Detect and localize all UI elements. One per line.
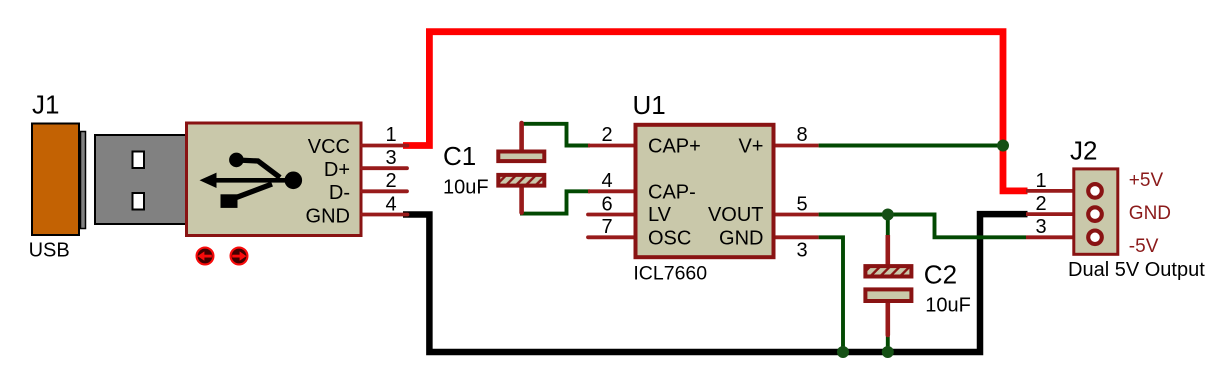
wire C2 top to VOUT node (green) <box>886 215 890 238</box>
svg-text:J1: J1 <box>32 90 59 120</box>
junction: VOUT / C2 <box>882 209 894 221</box>
svg-text:1: 1 <box>1035 170 1046 192</box>
svg-text:7: 7 <box>601 216 612 238</box>
svg-text:GND: GND <box>306 205 350 227</box>
svg-text:3: 3 <box>796 239 807 261</box>
svg-text:10uF: 10uF <box>925 295 971 317</box>
svg-text:U1: U1 <box>633 90 666 120</box>
svg-text:ICL7660: ICL7660 <box>633 263 707 285</box>
J1 pin 1 stub <box>362 144 408 148</box>
svg-text:3: 3 <box>385 147 396 169</box>
capacitor C1 bottom pin <box>519 186 524 213</box>
J2 pin 3 circle <box>1088 231 1102 245</box>
svg-text:C1: C1 <box>443 141 476 171</box>
J2 pin 3 stub <box>1026 235 1074 239</box>
U1 pin 3 stub <box>773 235 819 239</box>
ground net wire (black thick) J1 pin4 to J2 pin2 <box>403 214 1028 352</box>
svg-text:2: 2 <box>1035 193 1046 215</box>
svg-text:8: 8 <box>796 124 807 146</box>
connector J1 metal shell <box>95 135 188 224</box>
U1 pin 5 stub <box>773 213 819 217</box>
capacitor C1 top pin <box>519 123 524 152</box>
svg-text:LV: LV <box>648 204 672 226</box>
J2 pin 2 circle <box>1088 207 1102 221</box>
capacitor C2 top pin <box>885 235 890 267</box>
connector J1 shell window 2 <box>133 193 145 210</box>
connector J2 body <box>1074 169 1118 254</box>
capacitor C1 bottom plate (hatched negative) <box>498 175 544 186</box>
J1 pin 2 stub <box>362 189 407 193</box>
svg-text:10uF: 10uF <box>443 177 489 199</box>
J2 pin 1 stub <box>1026 189 1074 193</box>
capacitor C2 bottom pin <box>885 302 890 335</box>
svg-text:CAP+: CAP+ <box>648 136 701 158</box>
J2 pin 2 stub <box>1026 212 1074 216</box>
U1 pin 7 stub <box>588 235 635 239</box>
svg-text:+5V: +5V <box>1129 170 1164 191</box>
connector J1 shell window 1 <box>133 152 145 169</box>
svg-text:2: 2 <box>385 170 396 192</box>
connector J1 USB plug orange overmold <box>32 124 79 236</box>
capacitor C2 bottom plate <box>865 289 911 301</box>
svg-text:VCC: VCC <box>308 136 350 158</box>
svg-text:2: 2 <box>601 124 612 146</box>
svg-text:4: 4 <box>601 170 612 192</box>
svg-text:GND: GND <box>719 227 763 249</box>
J2 pin 1 circle <box>1088 184 1102 198</box>
wire C1 bottom to U1 CAP- (green) <box>520 191 590 213</box>
svg-text:CAP-: CAP- <box>648 182 696 204</box>
J1 orientation arrow symbol right <box>231 248 248 265</box>
svg-text:-5V: -5V <box>1129 236 1159 257</box>
wire U1 V+ pin8 to +5V net (green) <box>819 144 1003 148</box>
connector J1 plug lip <box>81 132 86 229</box>
junction: C2 bottom to ground rail <box>882 346 894 358</box>
J1 pin 3 stub <box>362 166 407 170</box>
svg-text:V+: V+ <box>738 136 763 158</box>
svg-text:3: 3 <box>1035 216 1046 238</box>
J1 USB trident logo <box>200 153 303 208</box>
connector J1 body <box>187 123 362 236</box>
capacitor C1 top plate <box>498 152 544 162</box>
U1 pin 6 stub <box>588 213 635 217</box>
wire U1 VOUT pin5 to J2 pin3 (green) <box>819 215 1026 238</box>
J1 pin 4 stub <box>362 213 408 217</box>
svg-text:C2: C2 <box>924 260 957 290</box>
wire C2 bottom to ground rail (green) <box>886 334 890 352</box>
svg-text:5: 5 <box>796 193 807 215</box>
svg-text:USB: USB <box>29 240 70 262</box>
svg-text:OSC: OSC <box>648 227 691 249</box>
wire C1 top to U1 CAP+ (green) <box>520 124 590 146</box>
svg-text:1: 1 <box>385 124 396 146</box>
IC U1 body <box>636 125 774 257</box>
U1 pin 2 stub <box>588 144 635 148</box>
svg-text:4: 4 <box>385 193 396 215</box>
svg-text:GND: GND <box>1129 203 1171 224</box>
U1 pin 4 stub <box>588 189 635 193</box>
svg-text:D-: D- <box>329 182 350 204</box>
svg-text:6: 6 <box>601 193 612 215</box>
svg-text:VOUT: VOUT <box>708 204 764 226</box>
wire U1 GND pin3 to ground rail (green) <box>819 237 843 352</box>
junction: U1 GND to ground rail <box>837 346 849 358</box>
capacitor C2 top plate (hatched negative) <box>865 266 911 276</box>
J1 orientation arrow symbol left <box>197 248 214 265</box>
svg-text:Dual 5V Output: Dual 5V Output <box>1068 259 1205 281</box>
+5V net wire (red thick) J1 pin1 to J2 pin1 <box>403 32 1028 191</box>
junction: V+ to red wire <box>997 140 1009 152</box>
U1 pin 8 stub <box>773 144 819 148</box>
svg-text:D+: D+ <box>324 159 350 181</box>
svg-text:J2: J2 <box>1070 136 1097 166</box>
